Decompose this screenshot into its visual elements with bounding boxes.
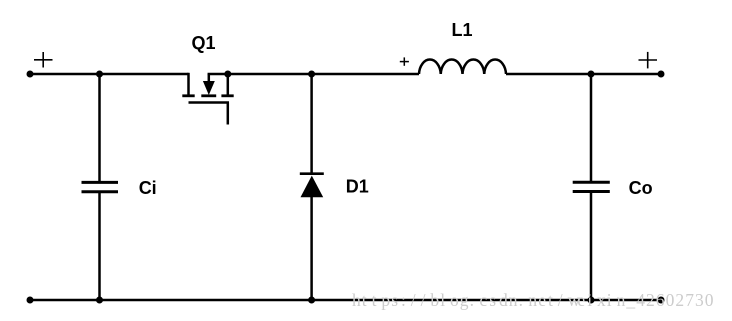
- svg-text:L1: L1: [452, 20, 473, 40]
- transistor Q1: [182, 73, 233, 125]
- svg-text:D1: D1: [346, 177, 369, 197]
- capacitor Co: [573, 182, 610, 191]
- node junction Ci bottom: [96, 297, 103, 304]
- wire top rail middle segment: [208, 73, 419, 76]
- svg-text:Q1: Q1: [192, 33, 216, 53]
- plus polarity mark right output: [639, 52, 658, 69]
- wire top rail right segment: [506, 73, 661, 76]
- node bottom left terminal dot: [27, 297, 34, 304]
- wire Co top branch: [590, 74, 593, 181]
- wire top rail left segment: [30, 73, 189, 76]
- node left input terminal dot: [27, 71, 34, 78]
- node junction Co bottom: [588, 297, 595, 304]
- wire Ci top branch: [98, 74, 101, 181]
- capacitor Ci: [82, 182, 119, 191]
- wire Co bottom branch: [590, 193, 593, 301]
- node bottom right terminal dot: [658, 297, 665, 304]
- node junction Co top: [588, 71, 595, 78]
- wire Ci bottom branch: [98, 193, 101, 300]
- plus polarity mark inductor input: [400, 57, 409, 65]
- wire bottom rail: [30, 299, 661, 302]
- node junction Ci top: [96, 71, 103, 78]
- node junction D1 bottom: [308, 297, 315, 304]
- node junction Q1 source: [224, 71, 231, 78]
- svg-text:Ci: Ci: [139, 178, 157, 198]
- wire D1 top branch: [310, 74, 313, 175]
- diode D1: [300, 174, 324, 198]
- node right output terminal dot: [658, 71, 665, 78]
- wire D1 bottom branch: [310, 197, 313, 301]
- inductor L1: [419, 60, 506, 74]
- svg-text:Co: Co: [629, 178, 653, 198]
- node junction D1 top: [308, 71, 315, 78]
- plus polarity mark left input: [34, 52, 53, 68]
